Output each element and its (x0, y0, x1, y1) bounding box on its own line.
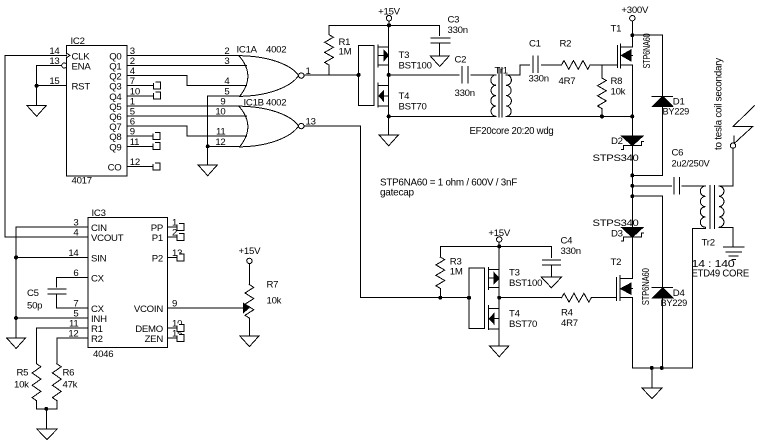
n.c. marker ZEN (176, 334, 184, 342)
capacitor C3 330n (431, 15, 468, 56)
label IC1B pin9 (220, 96, 225, 107)
transistor T2 STP6NA60 (617, 276, 633, 301)
wire +15V rail (driver1) (329, 24, 440, 26)
svg-text:10: 10 (215, 107, 225, 118)
wire +15V rail (driver2) (440, 245, 551, 247)
wire RST pin15 (37, 85, 67, 87)
svg-text:+15V: +15V (488, 228, 511, 239)
wire CX pin6 cap lead (56, 278, 58, 288)
wire D3 to T2 drain (631, 237, 633, 278)
wire driver2 T3 body (498, 270, 500, 298)
wire Tr2 secondary bottom (719, 227, 733, 247)
svg-text:1M: 1M (339, 47, 352, 58)
svg-text:D3: D3 (611, 229, 623, 240)
wire C1 to R2 (541, 64, 561, 66)
svg-text:P1: P1 (152, 233, 163, 244)
wire SIN pin14 (16, 256, 88, 258)
wire Tr2 primary return (692, 227, 705, 368)
junction ENA/RST (35, 84, 39, 88)
wire far-left vertical bus (CLK to IC3 VCOUT) (4, 55, 6, 237)
wire VCOUT pin4 (5, 236, 88, 238)
svg-text:R5: R5 (17, 368, 29, 379)
n.c. marker Q8 (152, 132, 160, 140)
junction +15V rail driver2 (497, 244, 501, 248)
wire P1 stub (n.c.) (167, 236, 177, 238)
svg-text:VCOIN: VCOIN (134, 304, 163, 315)
diode D4 BY229 (652, 288, 687, 309)
label T1 (611, 24, 622, 35)
wire IC1B output to driver2 (304, 126, 440, 298)
svg-text:R2: R2 (560, 39, 572, 50)
wire Q5 to IC1B pin9 (127, 105, 240, 107)
transformer Tr1 (491, 66, 512, 118)
junction IC1B pin12 (206, 144, 210, 148)
label T2 (611, 257, 622, 268)
wire driver1 T4 source to ground (388, 106, 390, 135)
wire Q0 to IC1A pin2 (127, 54, 240, 56)
wire bottom ground stem (651, 368, 653, 388)
label T4 driver2 (509, 309, 537, 330)
power terminal +15V (driver2) (497, 237, 502, 247)
wire gate-tie ground stem (207, 146, 209, 165)
junction SIN tie (14, 255, 18, 259)
svg-text:50p: 50p (27, 301, 42, 312)
wire +300V branch to D1 (632, 35, 662, 96)
wire D4 string vertical (662, 196, 664, 288)
resistor R3 1M (436, 246, 463, 297)
svg-text:BST70: BST70 (509, 319, 537, 330)
op-amp gate U1A 4002 NOR (IC1A) (237, 44, 304, 96)
svg-text:BST70: BST70 (399, 101, 427, 112)
label +300V (621, 5, 649, 16)
svg-text:47k: 47k (63, 380, 78, 391)
transformer Tr2 (700, 186, 724, 249)
svg-text:330n: 330n (529, 74, 549, 85)
capacitor C1 330n (529, 39, 549, 85)
junction bottom ground (650, 366, 654, 370)
wire IC1B pin12 (208, 145, 240, 147)
label Tr2 core (692, 269, 750, 280)
wire Tr1 primary return (389, 115, 496, 117)
wire R4 to T2 gate (591, 297, 616, 299)
svg-text:+300V: +300V (621, 5, 649, 16)
capacitor C6 2u2/250V (672, 148, 711, 195)
wire bottom rail (632, 367, 692, 369)
wire driver2 T4 source to ground (498, 329, 500, 346)
svg-text:SIN: SIN (91, 253, 107, 264)
op-amp gate U1B 4002 NOR (IC1B) (239, 98, 304, 147)
wire R7 ground stem (248, 318, 250, 336)
junction +15V rail (387, 23, 391, 27)
svg-text:STP6NA60: STP6NA60 (642, 33, 653, 68)
note STP6NA60 spec (380, 177, 517, 188)
wire C2 to Tr1 primary (471, 74, 496, 76)
ground (bottom rail) (642, 388, 662, 399)
junction D4 bottom (660, 366, 664, 370)
n.c. marker DEMO (176, 324, 184, 332)
junction INH tie (14, 316, 18, 320)
label D2 STPS340 (593, 153, 639, 164)
power terminal +300V (630, 16, 635, 36)
svg-text:BY229: BY229 (663, 106, 690, 117)
wire RST ground stem (36, 86, 38, 106)
wire Q3 stub (n.c.) (127, 85, 154, 87)
svg-text:4002: 4002 (266, 98, 286, 109)
note gatecap (380, 187, 415, 198)
wire P2 stub (n.c.) (167, 256, 177, 258)
capacitor C5 50p (27, 288, 66, 312)
resistor R6 47k (52, 338, 77, 409)
wire driver2 rail-to-T3 drain (498, 246, 500, 269)
svg-text:RST: RST (72, 82, 91, 93)
wire branch to D1 string (632, 174, 662, 176)
svg-text:P2: P2 (152, 253, 163, 264)
ground (driver2) (490, 346, 509, 357)
svg-text:Q9: Q9 (109, 142, 121, 153)
svg-text:4R7: 4R7 (561, 318, 578, 329)
wire CO stub (n.c.) (127, 166, 153, 168)
label Tr2 ratio (692, 258, 735, 270)
terminal to tesla coil (730, 143, 735, 148)
wire Q6 to IC1B pin10 (127, 115, 246, 117)
ground (RST) (27, 106, 46, 117)
n.c. marker Q4 (153, 91, 161, 99)
junction driver1 input (357, 73, 361, 77)
svg-text:10k: 10k (267, 296, 282, 307)
wire INH ground stem (15, 318, 17, 338)
label IC1B pin12 (215, 137, 225, 148)
junction +300V branch (630, 33, 634, 37)
wire IC1A pin5 to ground tie (208, 95, 241, 97)
ground (C4) (541, 277, 561, 288)
svg-text:IC1A: IC1A (237, 44, 258, 55)
svg-text:R6: R6 (63, 368, 75, 379)
wire ZEN stub (n.c.) (167, 337, 177, 339)
label IC1A pin3 (224, 56, 229, 67)
wire CLK pin14 from far-left bus (5, 54, 67, 56)
wire C5 to CX pin7 (56, 294, 58, 308)
n.c. marker P2 (176, 253, 184, 261)
label IC1B pin11 (216, 127, 225, 138)
wire R5/R6 join (37, 408, 57, 410)
wire CX pin6 (57, 277, 89, 279)
svg-text:330n: 330n (455, 88, 475, 99)
wire R2 pin12 (57, 337, 88, 339)
wire CIN tie vertical (15, 227, 17, 318)
power terminal +15V (R7) (239, 246, 262, 285)
label IC1A pin4 (224, 76, 230, 87)
junction C6 branch (630, 184, 634, 188)
svg-text:ETD49 CORE: ETD49 CORE (692, 269, 750, 280)
wire T2 source down (631, 298, 633, 368)
svg-text:T2: T2 (611, 257, 622, 268)
wire IC1A output to driver1 input (304, 74, 359, 76)
junction R5/R6 (44, 407, 48, 411)
junction D4 branch (630, 194, 634, 198)
svg-text:2u2/250V: 2u2/250V (672, 159, 711, 170)
n.c. marker PP (176, 223, 184, 231)
svg-text:BY229: BY229 (661, 298, 688, 309)
n.c. marker Q3 (153, 81, 161, 89)
resistor R2 4R7 (559, 39, 591, 88)
wire PP stub (n.c.) (167, 226, 177, 228)
label IC1A output pin 1 (306, 66, 311, 77)
label IC1B output pin 13 (306, 116, 316, 127)
wire T1 drain to +300V (631, 35, 633, 47)
svg-text:4046: 4046 (93, 349, 113, 360)
svg-text:4017: 4017 (72, 176, 92, 187)
ground (C3) (430, 56, 449, 67)
junction R3 bottom (438, 296, 442, 300)
transistor pair T3/T4 driver2 (BST100/BST70) (469, 268, 499, 330)
label T1 STP6NA60 (642, 33, 653, 68)
junction driver2 input (467, 296, 471, 300)
junction R8 bottom (600, 114, 604, 118)
capacitor C2 330n (455, 55, 475, 100)
svg-text:C4: C4 (561, 236, 574, 247)
wire Tr1 secondary return (506, 115, 632, 117)
svg-text:12: 12 (215, 137, 225, 148)
transistor T1 STP6NA60 (617, 44, 632, 68)
svg-text:10k: 10k (14, 380, 29, 391)
resistor R8 10k (598, 65, 626, 117)
diode D1 BY229 (652, 96, 689, 117)
svg-text:C3: C3 (448, 15, 460, 26)
wire R2 to T1 gate (590, 64, 617, 66)
potentiometer R7 10k (245, 280, 282, 319)
label Tr1 core (470, 126, 554, 137)
label IC1B pin10 (215, 107, 225, 118)
svg-text:R2: R2 (91, 334, 103, 345)
wire unused-input ground tie vertical (207, 96, 209, 147)
n.c. marker Q9 (152, 142, 160, 150)
svg-text:STP6NA60: STP6NA60 (641, 268, 652, 305)
wire CX pin7 (57, 307, 89, 309)
label IC1A pin2 (224, 46, 229, 57)
junction driver2 output (497, 296, 501, 300)
wire T1 source to D2 (631, 65, 633, 136)
wire INH pin5 (16, 317, 88, 319)
wire D2 cathode down (631, 146, 633, 228)
svg-text:D2: D2 (611, 136, 623, 147)
svg-text:BST100: BST100 (509, 278, 542, 289)
wire Q4 stub (n.c.) (127, 95, 154, 97)
wire R1 pin11 (37, 327, 89, 329)
ground (R7) (240, 336, 259, 347)
svg-text:IC1B: IC1B (244, 98, 264, 109)
ground (R5/R6) (37, 429, 58, 440)
wire DEMO stub (n.c.) (167, 327, 177, 329)
wire branch to D4 string (632, 195, 662, 197)
svg-text:EF20core 20:20 wdg: EF20core 20:20 wdg (470, 126, 554, 137)
earth ground (Tr2 secondary) (723, 247, 744, 259)
junction driver1 output (387, 73, 391, 77)
ENA inversion bubble on IC2 pin 13 (62, 63, 67, 68)
wire R5/R6 ground stem (45, 409, 47, 429)
label +15V (driver2) (488, 228, 511, 239)
diode D3 STPS340 (611, 228, 643, 242)
wire Q9 stub (n.c.) (127, 145, 153, 147)
wire driver1 rail-to-T3 drain (388, 25, 390, 47)
label +15V (driver1) (378, 7, 401, 18)
wire driver1 output to C2 (389, 74, 460, 76)
svg-text:4002: 4002 (266, 44, 286, 55)
wire driver2 T4 body (498, 298, 500, 329)
wire driver2 input segment (440, 297, 469, 299)
wire D1 anode down (662, 106, 664, 175)
junction D1 branch (630, 173, 634, 177)
diode D2 STPS340 (611, 136, 643, 150)
svg-text:ZEN: ZEN (145, 334, 164, 345)
junction T1 source/return (630, 114, 634, 118)
svg-text:IC3: IC3 (92, 208, 106, 219)
svg-text:CO: CO (108, 163, 122, 174)
wire Tr1 secondary top lead (506, 65, 529, 75)
label to tesla coil secondary (713, 57, 724, 150)
svg-text:Tr2: Tr2 (702, 238, 715, 249)
ground (gate tie) (198, 165, 217, 176)
svg-text:to tesla coil secondary: to tesla coil secondary (713, 57, 724, 150)
label T4 driver1 (399, 91, 427, 112)
IC U3 4046 PLL (IC3) (68, 208, 182, 360)
svg-text:VCOUT: VCOUT (91, 233, 124, 244)
capacitor C4 330n (542, 236, 580, 278)
svg-text:1M: 1M (450, 267, 463, 278)
IC U2 4017 decade counter (IC2) (49, 36, 140, 187)
svg-text:+15V: +15V (239, 246, 262, 257)
wire driver2 output to R4 (499, 297, 561, 299)
label IC1A pin5 (224, 86, 229, 97)
svg-text:R7: R7 (267, 280, 279, 291)
svg-text:CX: CX (91, 274, 105, 285)
svg-text:ENA: ENA (72, 62, 92, 73)
wire Q7 step to IC1B pin11 (127, 126, 247, 136)
wire VCOIN pin9 to R7 wiper (167, 307, 243, 309)
transistor pair T3/T4 driver1 (BST100/BST70) (359, 45, 389, 107)
ground (driver1) (379, 135, 398, 146)
svg-text:330n: 330n (561, 246, 581, 257)
wire ENA pin13 stub (37, 65, 62, 67)
resistor R5 10k (14, 328, 41, 409)
resistor R1 1M (325, 25, 352, 75)
svg-text:330n: 330n (448, 25, 468, 36)
wire Q2 step to IC1A pin4 (127, 76, 247, 86)
power terminal +15V (driver1) (386, 16, 391, 26)
wire C6 to Tr2 primary (682, 185, 706, 187)
wire Q8 stub (n.c.) (127, 135, 153, 137)
svg-text:3: 3 (224, 56, 229, 67)
svg-text:T1: T1 (611, 24, 622, 35)
n.c. marker CO (152, 162, 160, 170)
svg-text:BST100: BST100 (399, 60, 432, 71)
wire Tr2 secondary top (719, 148, 733, 186)
svg-text:4R7: 4R7 (559, 76, 576, 87)
label D3 STPS340 (593, 218, 639, 229)
wire Q1 to IC1A pin3 (127, 65, 246, 67)
label T3 driver2 (509, 268, 542, 289)
wire driver1 T3 body (388, 47, 390, 75)
junction driver1 source/return (387, 114, 391, 118)
wire ENA-to-RST tie vertical (36, 66, 38, 86)
svg-text:C2: C2 (455, 55, 467, 66)
wire driver1 T4 body (388, 75, 390, 106)
resistor R4 4R7 (561, 293, 591, 329)
wire C6 branch (632, 185, 671, 187)
label T3 driver1 (399, 50, 432, 71)
svg-text:C1: C1 (529, 39, 541, 50)
svg-text:gatecap: gatecap (380, 187, 415, 198)
svg-text:STPS340: STPS340 (593, 153, 639, 164)
R7 wiper arrow (244, 303, 249, 312)
svg-text:C5: C5 (27, 288, 39, 299)
svg-text:C6: C6 (672, 148, 684, 159)
svg-text:10k: 10k (611, 86, 626, 97)
n.c. marker P1 (176, 233, 184, 241)
svg-text:IC2: IC2 (71, 36, 85, 47)
wire D4 anode down (662, 298, 664, 368)
spark arrow to tesla coil (733, 106, 754, 144)
wire CIN pin3 (16, 226, 88, 228)
label T2 STP6NA60 (641, 268, 652, 305)
svg-text:R4: R4 (561, 308, 574, 319)
svg-text:+15V: +15V (378, 7, 401, 18)
ground (INH) (7, 338, 26, 349)
